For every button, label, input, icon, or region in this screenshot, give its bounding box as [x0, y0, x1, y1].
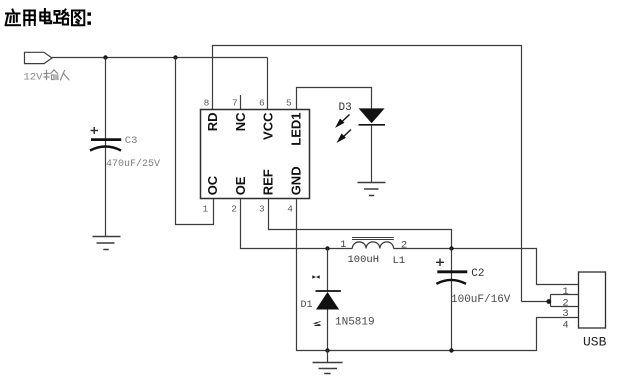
wire C2 branch — [451, 249, 453, 351]
LED D3 — [359, 108, 386, 124]
wire REF route (pin3 to output node) — [269, 199, 452, 249]
wire USB data net (fork to pins 2,3) — [522, 295, 579, 307]
USB connector J2 box — [579, 272, 606, 328]
junction node G (data fork) — [546, 299, 551, 304]
wire D3 cathode down — [371, 125, 373, 183]
diode D1 — [316, 249, 341, 351]
junction node F (C2 to ground rail) — [449, 348, 453, 352]
svg-text:3: 3 — [562, 308, 568, 320]
svg-text:1: 1 — [202, 204, 208, 215]
svg-text:2: 2 — [401, 239, 407, 251]
capacitor C2 — [436, 272, 467, 284]
capacitor C2 plus sign — [436, 259, 444, 267]
wire pin6 VCC from rail — [267, 58, 269, 110]
wire to ground G3 — [327, 351, 329, 363]
ground G1 (under C3) — [93, 237, 121, 250]
capacitor C3 — [90, 140, 121, 151]
wire 12V rail — [52, 57, 268, 59]
svg-text:LED1: LED1 — [289, 113, 304, 146]
junction node D (output node) — [449, 246, 453, 250]
svg-text:OC: OC — [205, 175, 220, 195]
svg-text:7: 7 — [232, 98, 238, 109]
title 应用电路图: (hand-drawn CJK strokes) — [6, 9, 91, 25]
svg-text:OE: OE — [233, 176, 248, 195]
svg-text:100uF/16V: 100uF/16V — [451, 294, 511, 306]
svg-text:2: 2 — [231, 204, 237, 215]
svg-text:1: 1 — [562, 286, 568, 298]
wire pin7 NC stub — [240, 95, 242, 110]
svg-text:4: 4 — [562, 319, 568, 331]
路 — [54, 10, 69, 25]
wire OC route (node B down, across, up to pin1) — [176, 58, 214, 225]
inductor L1 core — [352, 238, 394, 240]
wire pin5 LED1 to D3 — [297, 88, 372, 110]
wire OE route (pin2 to switch node) — [241, 199, 353, 249]
junction node B (OC tap) — [173, 55, 177, 59]
svg-text:470uF/25V: 470uF/25V — [106, 158, 160, 170]
svg-text:100uH: 100uH — [348, 254, 380, 266]
svg-text:1N5819: 1N5819 — [335, 317, 375, 329]
wire top net (pin8 to USB data) — [213, 46, 522, 302]
junction node E (D1 to ground rail) — [325, 348, 329, 352]
svg-text:RD: RD — [205, 113, 220, 132]
svg-text:4: 4 — [287, 204, 293, 215]
diode D1 bottom mark — [315, 322, 321, 326]
svg-text:C2: C2 — [471, 268, 484, 280]
svg-text:8: 8 — [204, 98, 210, 109]
svg-text:L1: L1 — [393, 255, 406, 267]
junction node C (switch node / D1 anode-cathode tap) — [325, 246, 329, 250]
wire L1 output to staircase — [394, 249, 579, 285]
电 — [40, 9, 51, 23]
junction node A (C3 tap) — [103, 55, 107, 59]
svg-text:6: 6 — [259, 98, 265, 109]
svg-text:5: 5 — [286, 98, 292, 109]
wire C3 branch — [105, 58, 107, 237]
应 — [6, 10, 20, 26]
fullwidth colon — [87, 12, 91, 24]
capacitor C3 plus sign — [91, 127, 99, 134]
op IC U1 box — [201, 110, 310, 199]
svg-text:C3: C3 — [125, 135, 138, 147]
inductor L1 coil — [352, 242, 393, 249]
svg-text:USB: USB — [583, 335, 607, 350]
入 — [61, 71, 65, 80]
svg-text:3: 3 — [259, 204, 265, 215]
svg-text:D1: D1 — [301, 300, 313, 311]
svg-text:VCC: VCC — [261, 112, 276, 140]
输 — [44, 73, 49, 75]
svg-text:12V: 12V — [24, 71, 44, 83]
svg-text:D3: D3 — [339, 102, 352, 114]
图 — [72, 11, 84, 26]
LED D3 emission arrows — [337, 115, 351, 142]
svg-text:1: 1 — [340, 239, 346, 251]
svg-text:REF: REF — [261, 169, 276, 195]
用 — [24, 11, 35, 26]
diode D1 top mark — [312, 275, 319, 279]
connector 12V input — [25, 52, 53, 63]
svg-text:GND: GND — [289, 166, 304, 195]
svg-text:NC: NC — [233, 112, 248, 131]
ground G2 (under D3) — [358, 183, 386, 196]
ground G3 (under D1) — [313, 363, 343, 374]
wire GND route (pin4 down + bottom rail) — [297, 199, 579, 351]
label 12V输入 — [24, 70, 70, 83]
